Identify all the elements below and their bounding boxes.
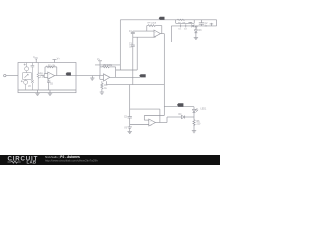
jfet sub-box — [23, 73, 32, 80]
wire to U2 minus — [133, 30, 154, 32]
svg-text:C2: C2 — [205, 23, 209, 25]
svg-text:R3: R3 — [104, 85, 108, 87]
riser to top block — [119, 20, 121, 70]
svg-text:+: + — [155, 35, 157, 38]
op-amp stage B — [104, 74, 110, 81]
internal bottom rail — [18, 89, 76, 91]
resistor Rm x=38.2 — [37, 63, 39, 73]
svg-text:D3: D3 — [199, 30, 203, 32]
right loop vertical — [216, 20, 218, 26]
svg-text:−: − — [105, 74, 107, 77]
op-amp U2 top right — [154, 30, 160, 37]
stage A feedback loop — [44, 67, 46, 74]
wire to U2 plus — [133, 36, 156, 38]
wire W1 top — [120, 19, 216, 21]
resistor below stage B — [101, 81, 103, 83]
vertical stub from W2 — [170, 26, 172, 42]
U3 output — [155, 122, 167, 124]
plus mark — [21, 80, 23, 82]
wire y=117 with diode D2 — [167, 116, 182, 118]
diode marks on W2 — [180, 24, 182, 27]
svg-text:R1 10k: R1 10k — [48, 65, 56, 67]
svg-text:V2: V2 — [28, 86, 32, 88]
svg-text:C5: C5 — [124, 117, 128, 119]
riser jog into minus input — [144, 115, 164, 117]
svg-text:220: 220 — [197, 124, 202, 126]
capacitor C2 between W1 and W2 — [200, 20, 202, 23]
net flag out bottom — [177, 103, 183, 106]
small cap right on W2 — [210, 23, 212, 26]
source circle V3 — [25, 67, 29, 71]
tiny label smudges — [28, 22, 208, 129]
svg-text:C6: C6 — [50, 84, 54, 86]
footer bar — [0, 155, 220, 165]
svg-text:LAB: LAB — [27, 160, 37, 165]
U2 output — [160, 33, 164, 35]
op-amp stage A — [48, 72, 55, 79]
RC loop R5 — [175, 20, 177, 24]
wire input — [6, 75, 18, 77]
diode marks on x=32.4 — [31, 73, 33, 81]
node IN terminal — [4, 74, 6, 76]
supply tap above rail x=54.5 — [53, 60, 57, 63]
U2 feedback R4 loop — [146, 26, 148, 32]
comparator chain x=129.7 — [129, 85, 131, 117]
svg-text:LED1: LED1 — [201, 109, 207, 111]
v+ rail segment — [95, 64, 120, 66]
svg-text:R4 100k: R4 100k — [148, 22, 157, 24]
svg-text:R2 100k: R2 100k — [104, 65, 113, 67]
svg-text:R5 10k: R5 10k — [178, 22, 186, 24]
capacitor on x=32.4 — [31, 63, 35, 73]
enclosure box — [18, 63, 76, 93]
jog wire y=70 — [116, 69, 138, 71]
ground below stage B — [100, 92, 104, 94]
diode chain to ground x=195.9 — [195, 26, 197, 30]
svg-text:D1: D1 — [179, 28, 183, 30]
stage A input stubs — [41, 75, 45, 77]
ground below box B — [48, 90, 52, 95]
vertical x=132.8 with caps C1 C3 — [132, 31, 134, 32]
power stub above stage B — [99, 61, 101, 67]
net flag micamp top — [159, 17, 165, 20]
svg-text:V+: V+ — [57, 58, 61, 60]
flag wire — [164, 106, 194, 108]
svg-text:V3: V3 — [124, 128, 128, 130]
ground under wire x=92.3 — [90, 76, 94, 81]
battery V1 above rail — [33, 57, 37, 63]
wire W2 — [171, 25, 216, 27]
vertical x=137.2 — [136, 37, 138, 70]
stage B input stubs — [100, 74, 104, 76]
stage B output wire — [110, 76, 140, 78]
svg-text:R6: R6 — [197, 121, 201, 123]
comparator feedback top — [130, 108, 160, 110]
svg-text:http://www.circuitlab.com/c6wm: http://www.circuitlab.com/c6wm2kv7a29h — [45, 159, 98, 163]
source circle V2 — [24, 80, 28, 84]
arrow inside — [25, 74, 29, 77]
LED chain x=194 — [193, 107, 195, 110]
mic model: plus mark — [24, 64, 26, 66]
net flag A after stage A — [66, 72, 71, 75]
below stage A capacitor to rail — [48, 80, 50, 81]
svg-text:1k: 1k — [104, 88, 107, 90]
stage B feedback loop — [99, 67, 101, 75]
wire stage A out to flag and stage B — [55, 75, 100, 77]
svg-text:1u: 1u — [129, 47, 132, 49]
long wire y=84.6 — [105, 81, 107, 84]
comparator input wire — [130, 124, 149, 126]
svg-text:−: − — [150, 120, 152, 123]
net flag micamp at stage B output — [139, 74, 146, 77]
cap on loop bottom — [189, 22, 193, 24]
ground below box A — [35, 90, 39, 95]
op-amp U3 — [149, 119, 156, 126]
svg-text:D2: D2 — [184, 28, 188, 30]
riser B down — [163, 34, 165, 116]
